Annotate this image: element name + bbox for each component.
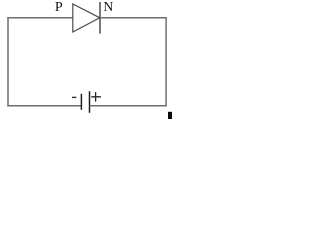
battery BT1 positive plate (long) xyxy=(89,91,91,113)
wire bottom-left segment xyxy=(7,105,81,107)
diode D1 cathode bar xyxy=(99,2,101,34)
cropped text artifact at image edge xyxy=(168,112,172,119)
wire bottom-right segment xyxy=(90,105,167,107)
wire top-right segment (cathode lead) xyxy=(100,17,167,19)
diode D1 triangle (anode) xyxy=(73,4,100,32)
wire top-left segment (anode lead) xyxy=(7,17,73,19)
battery BT1 negative plate (short) xyxy=(80,94,82,110)
svg-text:N: N xyxy=(103,0,113,15)
wire right side xyxy=(165,17,167,106)
wire left side xyxy=(7,17,9,106)
battery minus label xyxy=(72,97,76,98)
svg-text:P: P xyxy=(55,0,63,15)
battery plus label xyxy=(91,92,101,102)
